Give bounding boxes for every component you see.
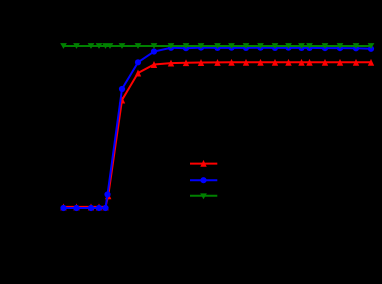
green triangle markers bbox=[60, 43, 374, 49]
blue curve bbox=[64, 48, 372, 208]
red triangle markers bbox=[60, 59, 374, 211]
red curve bbox=[64, 62, 372, 207]
legend red entry bbox=[190, 160, 217, 167]
legend green entry bbox=[190, 193, 217, 199]
legend blue entry bbox=[190, 177, 217, 183]
blue circle markers bbox=[60, 45, 374, 212]
green upper-bound line bbox=[64, 45, 372, 47]
